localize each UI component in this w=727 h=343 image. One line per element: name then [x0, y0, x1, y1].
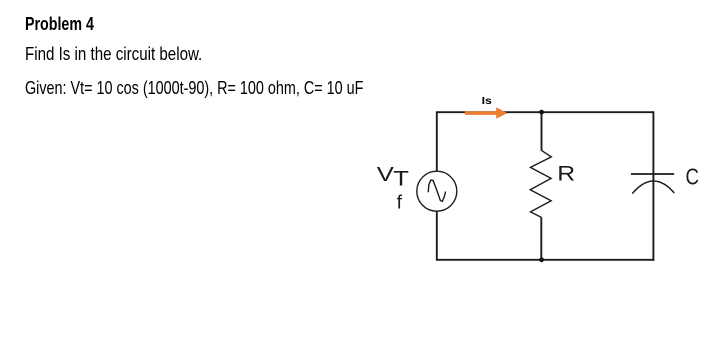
node junction top — [539, 110, 544, 115]
svg-text:f: f — [397, 191, 403, 213]
wire middle upper (top node to resistor) — [541, 112, 543, 150]
label Is — [482, 95, 492, 107]
wire left lower (source to bottom corner) — [436, 211, 438, 261]
svg-text:V: V — [377, 164, 395, 186]
wire top (node between source, R and C) — [437, 111, 654, 113]
wire left upper (top corner to source) — [436, 111, 438, 171]
current arrow Is — [465, 107, 508, 119]
voltage source U1 (sinusoidal source) — [417, 171, 457, 211]
svg-text:Is: Is — [482, 95, 492, 107]
svg-text:T: T — [393, 168, 409, 191]
label R — [557, 163, 575, 186]
resistor R — [530, 150, 551, 217]
svg-text:C: C — [686, 164, 700, 190]
text line: Find Is — [25, 43, 202, 65]
node junction bottom — [539, 257, 544, 262]
wire bottom — [437, 259, 655, 261]
capacitor C plates — [631, 174, 674, 194]
svg-text:R: R — [557, 163, 575, 186]
wire middle lower (resistor to bottom node) — [540, 217, 542, 260]
wire right (through capacitor C) — [652, 111, 654, 260]
title Problem 4 — [25, 13, 94, 35]
label f — [397, 191, 403, 213]
text line: Given — [25, 77, 363, 99]
label C — [686, 164, 700, 190]
label VT — [377, 164, 409, 191]
